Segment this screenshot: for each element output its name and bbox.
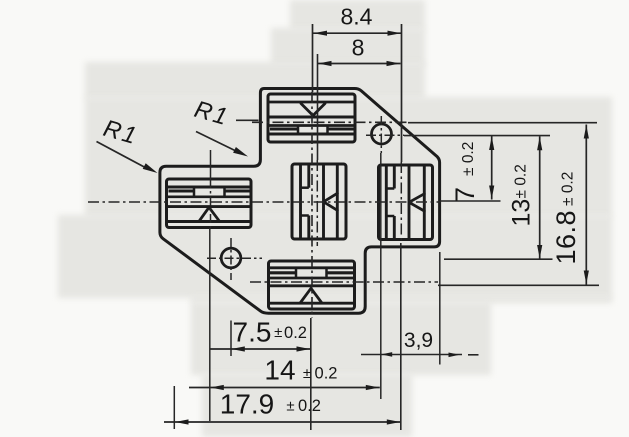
svg-text:8.4: 8.4 bbox=[341, 4, 373, 30]
svg-text:± 0.2: ± 0.2 bbox=[560, 172, 577, 206]
svg-text:±: ± bbox=[303, 365, 311, 382]
svg-text:0.2: 0.2 bbox=[315, 365, 338, 383]
svg-text:16.8: 16.8 bbox=[551, 210, 581, 265]
svg-text:± 0.2: ± 0.2 bbox=[460, 142, 477, 176]
svg-text:± 0.2: ± 0.2 bbox=[513, 164, 530, 198]
svg-text:R1: R1 bbox=[191, 96, 232, 132]
svg-text:14: 14 bbox=[264, 355, 295, 386]
svg-text:3,9: 3,9 bbox=[404, 329, 433, 352]
svg-text:13: 13 bbox=[508, 199, 536, 227]
svg-text:17.9: 17.9 bbox=[220, 389, 275, 420]
svg-text:±: ± bbox=[274, 324, 282, 341]
svg-text:±: ± bbox=[286, 398, 294, 415]
svg-text:0.2: 0.2 bbox=[298, 397, 321, 415]
svg-text:7.5: 7.5 bbox=[233, 317, 272, 348]
svg-text:8: 8 bbox=[352, 35, 365, 61]
svg-text:0.2: 0.2 bbox=[284, 324, 307, 342]
svg-text:R1: R1 bbox=[100, 115, 141, 151]
svg-text:7: 7 bbox=[450, 187, 480, 202]
